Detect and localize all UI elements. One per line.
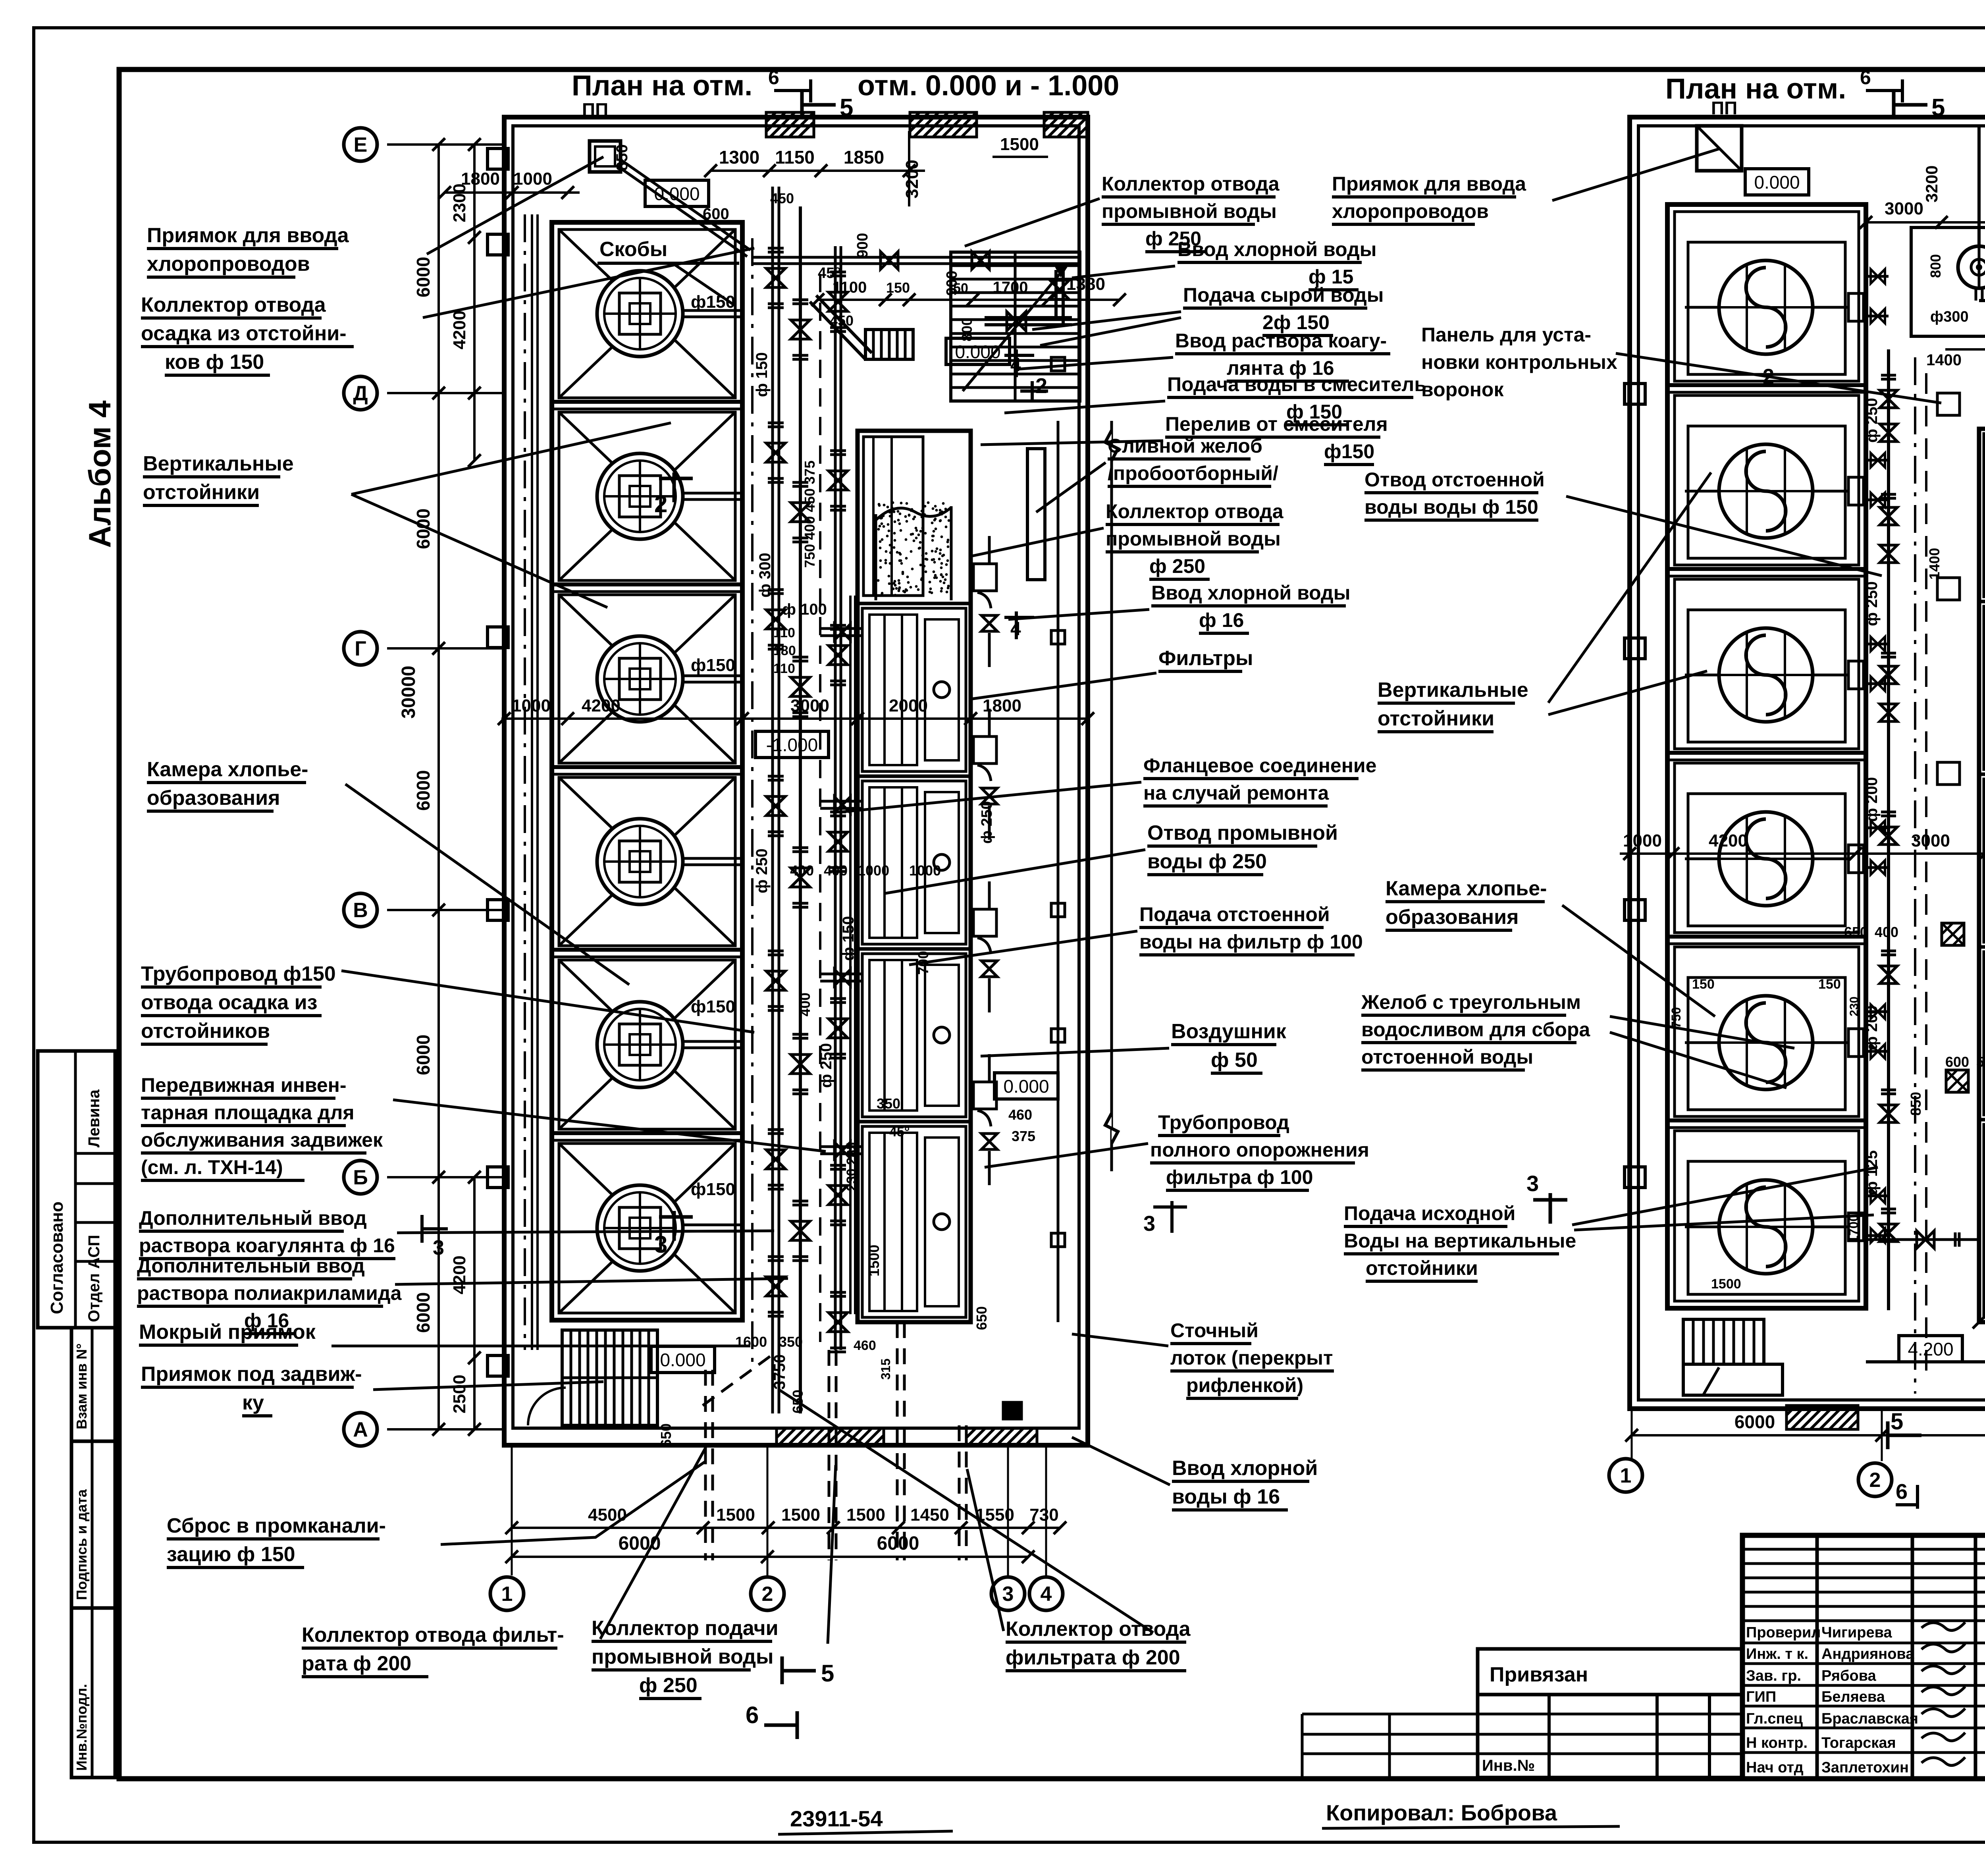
dim row 1800 1000 top-left <box>445 191 580 194</box>
svg-text:315: 315 <box>879 1359 893 1380</box>
svg-text:тарная площадка для: тарная площадка для <box>141 1101 355 1124</box>
tank divider wall 5 (right plan) <box>1667 1118 1866 1122</box>
svg-text:4500: 4500 <box>588 1505 627 1525</box>
staircase bottom-left (left plan) <box>562 1330 657 1425</box>
svg-text:6000: 6000 <box>1734 1411 1775 1432</box>
floor drain hatched square 2 <box>1946 1070 1968 1092</box>
bottom dimension chain small <box>512 1527 1060 1529</box>
leader line: приямок задвижка -> plan <box>373 1382 603 1390</box>
svg-text:Согласовано: Согласовано <box>47 1201 67 1314</box>
svg-text:ф150: ф150 <box>691 1180 735 1199</box>
label: Приямок под задвижку <box>141 1363 362 1416</box>
svg-text:промывной воды: промывной воды <box>1102 200 1277 222</box>
corridor main pipe 1 (double line) <box>771 187 774 1413</box>
staircase direction arrow <box>963 264 1068 391</box>
section mark 3 left margin <box>420 1215 424 1243</box>
svg-text:Браславская: Браславская <box>1821 1710 1918 1727</box>
svg-text:воды ф 16: воды ф 16 <box>1172 1485 1280 1508</box>
svg-text:отстойники: отстойники <box>143 481 260 504</box>
leader line: фланцевое -> corridor <box>842 782 1141 812</box>
label: Подача исходной воды <box>1344 1202 1576 1281</box>
svg-text:150: 150 <box>886 280 910 296</box>
diagonal dashed connection bottom <box>703 1352 776 1406</box>
svg-text:6000: 6000 <box>413 1035 434 1075</box>
svg-text:110: 110 <box>773 625 795 640</box>
svg-text:Коллектор отвода: Коллектор отвода <box>1102 173 1280 195</box>
pipe channel left of tank block <box>524 214 526 1350</box>
section mark 6 bottom <box>796 1711 799 1739</box>
label: Панель для установки воронок <box>1421 324 1617 401</box>
svg-text:3200: 3200 <box>902 160 922 199</box>
title block signature rows <box>1742 1620 1985 1622</box>
svg-text:хлоропроводов: хлоропроводов <box>147 253 310 276</box>
svg-text:ф 200: ф 200 <box>1863 777 1881 822</box>
svg-text:4200: 4200 <box>582 696 621 715</box>
svg-text:4: 4 <box>1010 619 1021 640</box>
svg-text:6000: 6000 <box>413 257 434 297</box>
svg-text:План на отм.: План на отм. <box>1665 73 1846 105</box>
svg-text:30000: 30000 <box>398 666 419 719</box>
svg-text:1000: 1000 <box>1623 831 1662 850</box>
mixer platform outline <box>1911 228 1985 336</box>
inner gallery line with posts (left plan) <box>1057 421 1060 1322</box>
wall pilaster squares on left wall <box>488 148 508 169</box>
svg-text:6: 6 <box>1860 66 1871 89</box>
inventory column boxes <box>71 1328 115 1778</box>
svg-text:450: 450 <box>770 190 794 206</box>
svg-text:Коллектор отвода: Коллектор отвода <box>1106 500 1284 523</box>
svg-text:Коллектор отвода: Коллектор отвода <box>141 293 326 316</box>
tank divider wall 1 (right plan) <box>1667 383 1866 387</box>
corridor axis dash-dot (right plan) <box>1914 357 1916 1394</box>
svg-text:Андриянова: Андриянова <box>1821 1646 1914 1662</box>
right plan: building outer wall <box>1630 117 1985 1409</box>
leader line: мокрый приямок -> plan <box>331 1345 750 1348</box>
label: Сброс в промканализацию <box>167 1514 386 1568</box>
svg-text:5: 5 <box>821 1660 834 1687</box>
label: Камера хлопьеобразования (right plan) <box>1386 877 1547 930</box>
filter cell 2 (left plan) <box>862 608 966 771</box>
elevation mark: e1 0.000 <box>645 180 709 206</box>
svg-text:ков ф 150: ков ф 150 <box>165 351 264 374</box>
svg-text:ку: ку <box>242 1391 264 1414</box>
svg-text:Инж. т к.: Инж. т к. <box>1746 1646 1808 1662</box>
section mark 5 top right plan <box>1892 92 1896 119</box>
elevation mark: rp entry 0.000 <box>1745 169 1809 195</box>
control panel squares <box>1937 393 1960 415</box>
top elbow piping <box>985 316 1072 319</box>
svg-text:Сброс в промканали-: Сброс в промканали- <box>167 1514 386 1537</box>
svg-text:Трубопровод: Трубопровод <box>1158 1111 1289 1134</box>
label: Подача сырой воды <box>1183 284 1384 335</box>
svg-text:650: 650 <box>973 1306 990 1330</box>
svg-text:ф 250: ф 250 <box>1863 398 1881 443</box>
svg-text:ф150: ф150 <box>1324 440 1374 463</box>
svg-text:110: 110 <box>773 661 795 676</box>
svg-text:1150: 1150 <box>775 147 815 168</box>
leader line: подача на фильтр -> filters <box>909 931 1137 965</box>
elevation mark: e2 0.000 <box>946 338 1010 364</box>
svg-text:В: В <box>353 899 368 922</box>
svg-text:1500: 1500 <box>781 1505 820 1525</box>
label: Отвод отстоенной воды <box>1364 469 1545 520</box>
svg-text:Чигирева: Чигирева <box>1821 1624 1892 1641</box>
svg-text:Ввод хлорной воды: Ввод хлорной воды <box>1151 582 1350 604</box>
label: Камера хлопьеобразования (left) <box>147 758 308 811</box>
dim 4000 under mixers <box>1945 348 1985 351</box>
wall hatching top-mid segment <box>910 112 977 137</box>
elevation mark: e3 -1.000 <box>755 731 829 758</box>
leader line: камера right -> tank <box>1562 905 1715 1016</box>
label: Вертикальные отстойники (left) <box>143 452 294 505</box>
svg-text:Беляева: Беляева <box>1821 1689 1885 1705</box>
grid leader lines rows <box>387 143 504 146</box>
svg-text:1700: 1700 <box>993 279 1028 296</box>
right plan wall pilasters left wall <box>1625 384 1645 404</box>
leader line: верт отст right 2 <box>1548 671 1707 715</box>
svg-text:раствора полиакриламида: раствора полиакриламида <box>137 1282 402 1304</box>
svg-text:Сточный: Сточный <box>1170 1319 1258 1342</box>
svg-text:образования: образования <box>147 787 280 810</box>
door swing bottom-left <box>528 1388 566 1425</box>
svg-text:ф 250: ф 250 <box>1149 555 1205 577</box>
svg-text:3000: 3000 <box>1885 199 1923 218</box>
horizontal dim row mid right plan <box>1620 852 1985 855</box>
vertical settling tank 2 (right plan, flocculator) <box>1675 395 1864 565</box>
section reference 6 in title <box>774 89 811 92</box>
svg-text:ф 250: ф 250 <box>1863 581 1881 626</box>
svg-text:ф 250: ф 250 <box>753 848 771 893</box>
corridor valves and flanges <box>766 248 848 1352</box>
label: Коллектор отвода осадка <box>141 293 354 375</box>
svg-text:2000: 2000 <box>889 696 928 715</box>
mixer bottom pipe with valve <box>1975 288 1977 301</box>
leader line: подача исходной 2 <box>1574 1215 1874 1230</box>
grid axis marker А <box>344 1413 377 1446</box>
leader line: ввод хлорной -> vestibule <box>1072 266 1175 278</box>
svg-text:ф300: ф300 <box>1930 308 1969 325</box>
svg-text:полного опорожнения: полного опорожнения <box>1150 1139 1369 1161</box>
svg-text:ф 150: ф 150 <box>840 916 857 961</box>
settling tank block outer wall (right plan) <box>1667 204 1866 1308</box>
label: Дополнительный ввод полиакриламида <box>137 1255 402 1334</box>
wall hatching bottom-right segment <box>777 1428 884 1445</box>
section mark 3T lower tank block <box>673 1211 676 1241</box>
svg-text:400: 400 <box>824 862 848 879</box>
svg-text:4: 4 <box>1010 355 1021 376</box>
svg-text:0.000: 0.000 <box>1003 1076 1049 1097</box>
svg-text:ф 150: ф 150 <box>753 352 771 397</box>
svg-text:1: 1 <box>501 1583 513 1606</box>
label: Коллектор отвода фильтрата (bottom mid) <box>1006 1618 1191 1671</box>
leader line: кол фильтрата лев -> pipe <box>600 1447 706 1639</box>
svg-text:3200: 3200 <box>1922 166 1941 202</box>
leader line: фильтры -> filter block <box>973 673 1156 699</box>
svg-text:отстойников: отстойников <box>141 1020 270 1043</box>
filter block outer wall <box>858 431 971 1322</box>
svg-text:Дополнительный ввод: Дополнительный ввод <box>137 1255 365 1277</box>
leader line: приямок mid -> right plan <box>1552 149 1719 201</box>
svg-text:Подача исходной: Подача исходной <box>1344 1202 1515 1224</box>
wall hatching top-left segment <box>766 112 814 137</box>
label: Вертикальные отстойники (right plan) <box>1378 679 1528 732</box>
svg-text:460: 460 <box>1008 1107 1032 1123</box>
label: Коллектор отвода промывной воды (top) <box>1102 173 1280 252</box>
leader line: сброс -> pipe <box>441 1461 706 1544</box>
filter divider wall 4 (right plan) <box>1979 1118 1985 1122</box>
svg-text:А: А <box>353 1418 368 1441</box>
vertical dimension line sub-chain <box>473 145 476 461</box>
svg-text:0.000: 0.000 <box>1754 172 1800 193</box>
svg-text:1500: 1500 <box>846 1505 885 1525</box>
label: Подача отстоенной воды на фильтр <box>1139 903 1363 955</box>
svg-text:Вертикальные: Вертикальные <box>143 452 294 475</box>
svg-text:отм. 0.000 и - 1.000: отм. 0.000 и - 1.000 <box>858 70 1119 102</box>
corridor pipe 4 (double line) <box>834 246 837 1350</box>
svg-text:План на отм.: План на отм. <box>572 70 752 102</box>
svg-text:Д: Д <box>353 382 368 405</box>
svg-text:2500: 2500 <box>450 1375 469 1413</box>
chlorine pipes diagonal from device <box>619 159 750 250</box>
svg-text:Камера хлопье-: Камера хлопье- <box>147 758 308 781</box>
staircase bottom-left (right plan) <box>1683 1319 1764 1364</box>
settling tank block outer wall <box>552 222 742 1320</box>
svg-text:Подача отстоенной: Подача отстоенной <box>1139 903 1330 925</box>
leader line: кол пром 2 -> filters <box>973 528 1104 556</box>
svg-text:3: 3 <box>1002 1583 1014 1606</box>
leader line: Скобы to bracket <box>675 265 735 306</box>
svg-text:800: 800 <box>1927 254 1944 278</box>
leader line: трубопровод150 -> corridor <box>341 971 754 1032</box>
leader line: панель -> right plan <box>1616 353 1941 403</box>
leader line: воздушник -> corridor <box>981 1048 1169 1056</box>
svg-text:ф 300: ф 300 <box>756 553 774 598</box>
leader line: коллектор осадка -> corridor <box>423 248 754 318</box>
svg-text:Фильтры: Фильтры <box>1158 647 1253 670</box>
svg-text:Подпись и дата: Подпись и дата <box>73 1489 90 1600</box>
label: Сливной желоб <box>1108 435 1278 486</box>
svg-text:2: 2 <box>1035 374 1047 398</box>
section mark 4 with T (upper right interior) <box>1015 349 1018 377</box>
label: Передвижная площадка <box>141 1074 383 1180</box>
svg-text:Коллектор отвода: Коллектор отвода <box>1006 1618 1191 1641</box>
svg-text:650: 650 <box>1844 924 1868 940</box>
main staircase top (left plan) <box>951 252 1080 401</box>
svg-text:Тогарская: Тогарская <box>1821 1735 1896 1751</box>
svg-text:(см. л. ТХН-14): (см. л. ТХН-14) <box>141 1156 283 1178</box>
svg-text:ф 250: ф 250 <box>979 801 995 844</box>
vertical settling tank 1 (left plan) <box>559 229 743 398</box>
tank divider wall 5 <box>552 1131 742 1135</box>
filter divider wall 3 <box>858 947 971 951</box>
tank divider wall 2 <box>552 582 742 586</box>
filter divider wall 2 (right plan) <box>1979 773 1985 776</box>
dim row 3000 2000 top <box>1866 221 1985 224</box>
dashed pipes leaving the building bottom <box>704 1370 707 1560</box>
label: Фланцевое соединение <box>1143 754 1376 806</box>
svg-text:2: 2 <box>762 1583 773 1606</box>
svg-text:ф 50: ф 50 <box>1211 1049 1258 1072</box>
svg-text:рифленкой): рифленкой) <box>1186 1374 1303 1396</box>
svg-text:3750: 3750 <box>771 1354 788 1390</box>
corridor axis dash-dot line <box>751 238 754 1362</box>
leader line: верт отстойники -> tank 2 <box>351 494 607 607</box>
leader line: подача сырой -> vestibule 2 <box>1040 318 1181 345</box>
grid axis marker 3 left plan <box>991 1577 1025 1610</box>
vestibule step bottom (right plan) <box>1683 1364 1783 1395</box>
svg-text:450: 450 <box>830 312 854 329</box>
svg-text:Скобы: Скобы <box>599 238 667 261</box>
svg-text:750 400 450 375: 750 400 450 375 <box>802 461 818 568</box>
section mark 5 bottom <box>781 1656 784 1684</box>
tank divider wall 2 (right plan) <box>1667 567 1866 571</box>
svg-text:Камера хлопье-: Камера хлопье- <box>1386 877 1547 900</box>
vertical settling tank 5 (left plan) <box>559 960 743 1129</box>
svg-text:4.200: 4.200 <box>1908 1339 1953 1359</box>
filter cell inlet stubs from corridor <box>820 627 862 630</box>
mixer risers to top wall <box>1977 126 1981 246</box>
svg-text:3: 3 <box>654 1231 667 1258</box>
vertical settling tank 3 (left plan) <box>559 595 743 763</box>
svg-text:0.000: 0.000 <box>660 1350 705 1370</box>
label: Приямок для ввода хлоропроводов (mid) <box>1332 173 1526 224</box>
svg-text:Копировал: Боброва: Копировал: Боброва <box>1326 1800 1557 1825</box>
svg-text:23911-54: 23911-54 <box>790 1806 883 1831</box>
leader line: камера -> tank4 <box>345 784 629 985</box>
svg-text:0.000: 0.000 <box>654 183 700 204</box>
grid axis marker 2 left plan <box>751 1577 784 1610</box>
vortex mixer 1 <box>1958 246 1985 288</box>
svg-text:/пробоотборный/: /пробоотборный/ <box>1108 462 1278 484</box>
svg-text:ф150: ф150 <box>691 997 735 1016</box>
svg-text:850: 850 <box>1908 1092 1924 1116</box>
wall hatching top-right segment <box>1044 112 1088 137</box>
svg-text:Вертикальные: Вертикальные <box>1378 679 1528 702</box>
svg-text:6: 6 <box>768 66 779 89</box>
svg-text:3: 3 <box>1143 1212 1155 1236</box>
svg-text:3: 3 <box>433 1236 444 1259</box>
tank divider wall 1 <box>552 400 742 404</box>
title block outline <box>1742 1535 1985 1779</box>
svg-text:400: 400 <box>797 993 813 1016</box>
svg-text:Н контр.: Н контр. <box>1746 1735 1808 1751</box>
right plan bottom wall hatch <box>1786 1406 1858 1429</box>
svg-text:1300: 1300 <box>719 147 759 168</box>
vertical settling tank 4 (right plan, flocculator) <box>1675 763 1864 933</box>
svg-text:Дополнительный ввод: Дополнительный ввод <box>139 1207 367 1229</box>
label: Коллектор отвода промывной (2) <box>1106 500 1284 579</box>
filter cell 3 (right plan) <box>1984 779 1985 942</box>
leader line: приямок -> device <box>427 157 603 254</box>
vertical settling tank 2 (left plan) <box>559 412 743 580</box>
svg-text:хлоропроводов: хлоропроводов <box>1332 200 1489 222</box>
svg-text:850: 850 <box>613 144 631 171</box>
svg-text:Проверил: Проверил <box>1746 1624 1821 1641</box>
corridor pipe 5 (double line) <box>849 596 852 1314</box>
svg-text:1600: 1600 <box>735 1334 767 1350</box>
bottom dimension chain 6000 6000 <box>512 1556 1028 1558</box>
leader line: подача в смеситель -> vestibule <box>1004 401 1165 413</box>
bottom horizontal pipe with valve (right plan) <box>1866 1238 1979 1241</box>
label: Воздушник ф50 <box>1171 1020 1287 1073</box>
vertical settling tank 6 (left plan) <box>559 1143 743 1313</box>
svg-text:1450: 1450 <box>910 1505 949 1525</box>
svg-text:0.000: 0.000 <box>955 341 1000 362</box>
svg-text:375: 375 <box>1012 1128 1035 1144</box>
svg-text:Ввод хлорной: Ввод хлорной <box>1172 1457 1318 1480</box>
door arc bottom right plan <box>1703 1367 1719 1395</box>
svg-text:Инв.№подл.: Инв.№подл. <box>73 1684 90 1771</box>
svg-text:ф 200: ф 200 <box>1863 1005 1881 1050</box>
svg-text:3: 3 <box>1526 1171 1539 1196</box>
leader line: перелив -> vestibule <box>981 441 1163 445</box>
svg-text:1400: 1400 <box>1926 351 1962 369</box>
svg-text:ф 16: ф 16 <box>1199 609 1244 631</box>
leader line: кол фильтрата 2b -> long diagonal <box>779 1390 1153 1633</box>
filter divider wall 4 <box>858 1120 971 1124</box>
washwater trough with sand fill (filter cell 1) <box>863 437 923 596</box>
svg-text:6000: 6000 <box>413 1292 434 1333</box>
svg-text:1850: 1850 <box>844 147 884 168</box>
svg-text:Перелив от смесителя: Перелив от смесителя <box>1165 413 1388 435</box>
grid axis marker Г <box>344 632 377 665</box>
label: Ввод хлорной воды (bottom) <box>1172 1457 1318 1510</box>
dim row 1100 150 / 50 1700 1380 <box>818 299 1120 301</box>
svg-text:6000: 6000 <box>877 1533 919 1554</box>
leader line: верт отст right 1 <box>1548 472 1711 703</box>
svg-text:1000: 1000 <box>512 696 551 715</box>
title block upper thin rows <box>1742 1548 1985 1551</box>
svg-text:обслуживания задвижек: обслуживания задвижек <box>141 1129 383 1151</box>
svg-text:460: 460 <box>854 1338 876 1353</box>
leader line: трубопровод опорожнения -> filters <box>985 1143 1148 1167</box>
svg-text:Е: Е <box>354 133 368 156</box>
svg-text:Фланцевое соединение: Фланцевое соединение <box>1143 754 1376 777</box>
svg-text:отстойники: отстойники <box>1378 707 1494 730</box>
grid axis marker 1 left plan <box>490 1577 524 1610</box>
section mark 2T in tank block <box>673 472 676 502</box>
svg-text:Гл.спец: Гл.спец <box>1746 1710 1803 1727</box>
svg-text:2: 2 <box>1869 1469 1881 1492</box>
approval column box (Согласовано) <box>38 1051 115 1328</box>
vertical settling tank 4 (left plan) <box>559 777 743 946</box>
svg-text:4: 4 <box>1041 1583 1052 1606</box>
svg-text:400: 400 <box>1875 924 1898 940</box>
leader line: отвод промывной -> filters <box>885 850 1145 893</box>
row stub pipes to corridor <box>1866 275 1889 278</box>
svg-text:Приямок для ввода: Приямок для ввода <box>147 224 349 247</box>
label: Перелив от смесителя <box>1165 413 1388 465</box>
svg-text:осадка из отстойни-: осадка из отстойни- <box>141 322 347 345</box>
attachment table left extension <box>1302 1713 1478 1716</box>
filter cell 4 (left plan) <box>862 954 966 1117</box>
svg-text:650: 650 <box>658 1423 674 1447</box>
svg-text:лоток (перекрыт: лоток (перекрыт <box>1170 1347 1333 1369</box>
svg-text:350: 350 <box>877 1095 900 1112</box>
svg-text:водосливом для сбора: водосливом для сбора <box>1361 1018 1590 1041</box>
svg-text:1400: 1400 <box>1926 548 1943 580</box>
filter divider wall 2 <box>858 775 971 778</box>
leader line: сливной желоб -> trough <box>1036 463 1106 512</box>
leader line: доп коагулянт -> corridor <box>397 1231 774 1233</box>
svg-text:отстоенной воды: отстоенной воды <box>1361 1046 1533 1068</box>
leader line: доп полиакриламид -> corridor <box>395 1278 788 1284</box>
filter outlet pads and elbows right side <box>973 564 996 591</box>
section reference 6 in right title <box>1866 89 1902 92</box>
svg-text:350: 350 <box>779 1334 803 1350</box>
label: Фильтры (left plan) <box>1158 647 1253 671</box>
left plan: building outer wall <box>504 117 1088 1445</box>
